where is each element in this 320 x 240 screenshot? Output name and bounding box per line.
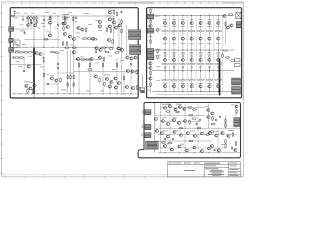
transistor Q41 [125, 85, 128, 88]
label C misc2 [172, 117, 177, 120]
wire gnd rail [12, 93, 138, 95]
diode DB5a [200, 55, 202, 57]
wire vertical net A20 [116, 58, 118, 94]
capacitor C5 [12, 56, 14, 59]
label A misc12 [28, 55, 32, 58]
resistor RE6f [210, 79, 213, 80]
label Q406 value [207, 82, 211, 85]
label Q103 pin [181, 18, 185, 21]
transistor Q325 [187, 132, 190, 135]
resistor RE6a [206, 30, 209, 31]
transistor Q306 (NPN output) [208, 58, 211, 61]
label Q207 value [216, 42, 220, 45]
resistor R302 [175, 111, 180, 113]
transistor Q102 (NPN output) [172, 21, 175, 24]
wire vertical net A14 [70, 50, 72, 94]
capacitor C101 [149, 35, 151, 38]
label C row1b [176, 103, 182, 106]
inductor L1 [235, 59, 241, 67]
transistor Q313 [173, 119, 176, 122]
wire vertical net A22 [130, 59, 132, 94]
transistor Q321 [161, 132, 164, 135]
wire C rail 3 [155, 140, 212, 142]
resistor R110 [225, 22, 227, 27]
wire C vertical 5 [197, 104, 199, 149]
transistor Q18 [35, 51, 38, 54]
label Q103 value [181, 25, 185, 28]
label A misc11 [15, 49, 19, 52]
label Q102 pin [172, 18, 176, 21]
transistor Q107 [149, 66, 152, 69]
wire column 4 vertical [191, 16, 193, 92]
resistor R40 [104, 51, 109, 53]
resistor R325 [211, 123, 216, 125]
wire column 5 emitter vertical [204, 16, 206, 92]
transistor Q10 [98, 20, 101, 23]
resistor R27 [67, 75, 69, 80]
transistor Q14 [108, 25, 111, 28]
transistor Q354 [210, 144, 213, 147]
transistor Q24 [25, 84, 28, 87]
wire column 4 emitter vertical [195, 16, 197, 92]
resistor R316 [225, 144, 227, 149]
resistor R34 [103, 57, 105, 62]
transistor Q307 (NPN output) [217, 58, 220, 61]
transistor Q344 [208, 131, 211, 134]
wire bus upper segment [33, 16, 35, 48]
diode D302 [214, 149, 216, 150]
wire left bias [11, 63, 42, 65]
resistor RE1e [162, 79, 165, 80]
wire output to connector [232, 92, 235, 94]
label A text row [13, 43, 18, 46]
resistor RE5d [201, 63, 204, 64]
label A misc18 [100, 90, 104, 93]
transistor Q205 (PNP output) [199, 37, 202, 40]
resistor R313 [225, 123, 227, 128]
resistor RE7a [215, 30, 218, 31]
label J10 net [156, 14, 161, 17]
transistor Q12 [108, 18, 111, 21]
resistor R326 [235, 141, 237, 146]
label C3 [41, 22, 45, 25]
label Q106 pin [208, 18, 212, 21]
connector J10 on B left border [147, 14, 154, 19]
resistor R63 [72, 47, 77, 49]
ground bus (thick) [33, 48, 35, 94]
resistor RE1d [166, 63, 169, 64]
wire vertical net A26 [121, 18, 123, 95]
wire vertical net A9 [72, 16, 74, 55]
label Q204 value [190, 42, 194, 45]
wire vertical net A17 [89, 60, 91, 94]
connector J15 stack right border [232, 78, 241, 85]
wire B J10 stub [154, 16, 160, 18]
transistor Q55 [117, 47, 120, 50]
connector J16 stack right border [232, 87, 241, 95]
wire B J12 stub [154, 50, 160, 52]
resistor R306 [192, 118, 197, 120]
resistor R310 [168, 142, 173, 144]
resistor R28 [70, 75, 72, 80]
transistor Q29 [98, 56, 101, 59]
wire column 5 vertical [200, 16, 202, 92]
capacitor C21 (electrolytic) [30, 17, 33, 20]
diode DB5b [200, 66, 202, 68]
label rail voltage [15, 12, 20, 15]
transistor Q9 [72, 37, 75, 40]
connector J32 on C left border [144, 133, 151, 138]
transistor Q315 [184, 120, 187, 123]
label Q206 value [207, 42, 211, 45]
wire C link row2 [161, 121, 201, 123]
capacitor C303 [215, 119, 217, 122]
connector J34 stack [234, 122, 240, 126]
transistor Q203 (PNP output) [181, 37, 184, 40]
resistor R23 [19, 57, 24, 59]
label 4x0R22 [61, 89, 67, 92]
transistor Q341 [207, 108, 210, 111]
wire vertical net A13 [67, 50, 69, 94]
wire vertical net A23 [95, 48, 97, 52]
resistor R35 [87, 69, 92, 71]
title block [168, 162, 241, 177]
label Q301 value [163, 53, 167, 56]
pin circle J30 [142, 111, 144, 113]
capacitor C22 (electrolytic) [33, 17, 36, 20]
resistor R58 [116, 63, 118, 68]
transistor Q110 [223, 14, 226, 17]
resistor RE7c [215, 63, 218, 64]
transistor Q53 [95, 47, 98, 50]
label output net [222, 50, 228, 53]
wire vertical net A24 [104, 48, 106, 52]
label C misc5 [190, 130, 195, 133]
resistor RE5b [201, 30, 204, 31]
transistor Q108 [149, 77, 152, 80]
wire B right vertical [225, 19, 227, 45]
resistor R305 [189, 120, 191, 125]
resistor R307 [205, 134, 210, 136]
junction dots column 4 [191, 15, 192, 92]
label J12 net [156, 48, 161, 51]
label A misc1 [26, 20, 30, 23]
wire vertical net A7 [57, 16, 59, 48]
wire vertical net A19 [109, 83, 111, 94]
transistor Q34 [131, 70, 134, 73]
wire C left vertical [154, 103, 156, 153]
wire vertical net A3 [33, 17, 35, 22]
capacitor C8 [95, 51, 97, 54]
connector J31 on C left border [144, 124, 151, 129]
diode DB4b [191, 66, 193, 68]
connector J1 on left border [9, 27, 14, 32]
transistor Q335 [193, 146, 196, 149]
transistor Q407 (PNP output) [217, 85, 220, 88]
transistor Q334 [186, 149, 189, 152]
label Q101 value [163, 25, 167, 28]
resistor R16 [14, 52, 19, 54]
label A misc14 [108, 55, 112, 58]
capacitor C28 [57, 24, 59, 27]
transistor Q355 [217, 149, 220, 152]
label A band8 [55, 27, 59, 30]
wire C bottom rail [158, 152, 240, 154]
capacitor C11 [57, 63, 59, 66]
resistor R62 [64, 47, 69, 49]
transistor Q304 (NPN output) [190, 58, 193, 61]
label Q306 value [207, 53, 211, 56]
diode DB2a [173, 55, 175, 57]
diode D303 [219, 116, 221, 117]
label A misc17 [86, 90, 90, 93]
capacitor C9 [120, 11, 122, 14]
transistor Q348 [234, 148, 237, 151]
label rail stub 3 [181, 51, 184, 54]
transistor Q56 [120, 48, 123, 51]
label Q205 value [198, 42, 202, 45]
junction dots column 7 [218, 15, 219, 92]
transistor Q15 [114, 26, 117, 29]
resistor R32 [80, 59, 85, 61]
label Q307 value [216, 53, 220, 56]
wire C vertical 2 [160, 103, 162, 153]
resistor R44 [121, 29, 123, 34]
capacitor C304 [172, 138, 174, 141]
diode DB6a [208, 55, 210, 57]
wire C link row3 [158, 134, 236, 136]
wire C rail 1 [155, 114, 205, 116]
label A misc13 [60, 49, 64, 52]
transistor Q37 [114, 77, 117, 80]
wire B output rail [152, 91, 236, 93]
wire vertical net A18 [102, 58, 104, 94]
connector J5 stack on right border [129, 35, 141, 40]
transistor Q403 (PNP output) [181, 85, 184, 88]
resistor R41 [114, 52, 119, 54]
label A misc7 [80, 56, 84, 59]
label Q107 value [216, 25, 220, 28]
transistor Q206 (PNP output) [208, 37, 211, 40]
resistor RE4f [192, 79, 195, 80]
resistor R320 [189, 115, 194, 117]
transistor Q406 (PNP output) [208, 85, 211, 88]
resistor R22 [14, 57, 19, 59]
label Q202 value [172, 42, 176, 45]
transistor Q21 [27, 65, 30, 68]
wire mid rail 2 (driver supply) [11, 46, 114, 48]
wire column 6 emitter vertical [213, 16, 215, 92]
label B col2 b [156, 79, 160, 82]
label Q405 value [198, 82, 202, 85]
label A topmid [84, 12, 89, 15]
resistor RE4d [192, 63, 195, 64]
resistor R13 [82, 38, 87, 40]
resistor RE6e [206, 79, 209, 80]
transistor Q404 (PNP output) [190, 85, 193, 88]
resistor RE5f [201, 79, 204, 80]
resistor RE7d [219, 63, 222, 64]
wire column 7 emitter vertical [222, 16, 224, 92]
transistor Q302 [169, 105, 172, 108]
capacitor C3 [43, 19, 45, 22]
label bias net [20, 30, 25, 33]
label Q106 value [207, 25, 211, 28]
wire C vertical 6 [217, 128, 219, 153]
label A misc5 [95, 19, 99, 22]
diode DB6b [208, 66, 210, 68]
diode DB4a [191, 55, 193, 57]
diode D1 [31, 23, 33, 24]
transistor Q305 [183, 108, 186, 111]
resistor RE3f [183, 79, 186, 80]
transistor Q314 [178, 122, 181, 125]
resistor R29 [73, 75, 75, 80]
transistor Q58 [81, 28, 84, 31]
transistor Q342 [211, 112, 214, 115]
diode DB7b [217, 66, 219, 68]
resistor RE5a [197, 30, 200, 31]
wire B rail 2 [152, 49, 234, 51]
label A top right [108, 9, 114, 12]
connector J13 on B left border [147, 55, 154, 60]
resistor R56 [89, 63, 91, 68]
transistor Q36 [110, 80, 113, 83]
transistor Q107 (NPN output) [217, 21, 220, 24]
capacitor C1 [13, 10, 16, 17]
capacitor C7 [42, 60, 44, 63]
label A misc2 [37, 27, 41, 30]
label rail stub 6 [208, 51, 211, 54]
relay K1 (crossed box) [236, 12, 241, 19]
transistor Q350 [235, 105, 238, 108]
resistor R26 [32, 89, 34, 94]
label Q107 pin [217, 18, 221, 21]
resistor R314 [232, 132, 234, 137]
resistor R60 [123, 76, 125, 81]
wire mid horizontal 3 [74, 71, 138, 73]
transistor Q204 (PNP output) [190, 37, 193, 40]
resistor RE3b [183, 30, 186, 31]
label J13 net [156, 54, 161, 57]
label A band7 [42, 25, 46, 28]
diode DB1a [164, 55, 166, 57]
label J20 [147, 89, 150, 92]
label A band6 [20, 24, 24, 27]
resistor R20 [50, 51, 55, 53]
label C misc3 [163, 130, 168, 133]
resistor RE2b [174, 30, 177, 31]
label A band4 [52, 12, 56, 15]
resistor R324 [236, 109, 238, 114]
label A misc9 [50, 74, 54, 77]
connector J7 stack on right border [130, 50, 141, 55]
transistor Q343 [207, 115, 210, 118]
wire B J13 stub [154, 56, 160, 58]
junction dots mid rail [17, 46, 108, 49]
transformer T1 (boxed) [146, 141, 159, 149]
label A mid2 [76, 32, 80, 35]
transistor Q26 [33, 84, 36, 87]
label R50 [66, 16, 71, 19]
capacitor C302 [231, 147, 233, 150]
capacitor C4 [24, 32, 26, 35]
transistor Q28 [90, 57, 93, 60]
resistor RE4b [192, 30, 195, 31]
transistor Q303 [174, 108, 177, 111]
resistor R39 [139, 87, 141, 92]
resistor R24 [60, 78, 62, 83]
resistor R9 [62, 41, 64, 46]
transistor Q16 [91, 37, 94, 40]
label A text row2 [22, 43, 26, 46]
transistor Q101 (NPN output) [164, 21, 167, 24]
resistor R15 [112, 39, 114, 44]
wire B left column [150, 10, 152, 93]
junction dots C bottom [165, 152, 210, 153]
wire +V top rail [14, 15, 114, 17]
label Q3 [47, 19, 52, 22]
resistor R303 [188, 107, 193, 109]
transistor Q3 [49, 21, 52, 24]
wire C r-chain [225, 115, 227, 128]
resistor R309 [161, 142, 166, 144]
transistor Q42 [131, 86, 134, 89]
label C tr1 [231, 104, 235, 107]
label A band2 [31, 12, 35, 15]
transistor Q332 [171, 148, 174, 151]
resistor R25 [27, 89, 29, 94]
connector J2 on left border [9, 38, 14, 42]
capacitor C20 (electrolytic) [27, 17, 30, 20]
resistor R31 [73, 82, 75, 87]
resistor R106 [157, 55, 159, 60]
connector J6 stack on right border [130, 45, 141, 50]
resistor R304 [192, 109, 197, 111]
transistor Q32 [134, 56, 137, 59]
wire C link row4 [161, 147, 226, 149]
label rail stub 4 [190, 51, 193, 54]
label A misc4 [76, 36, 80, 39]
transistor Q402 (PNP output) [172, 85, 175, 88]
wire column 1 vertical [164, 16, 166, 92]
resistor R7 [73, 17, 75, 22]
transistor Q22 [50, 77, 53, 80]
label A misc10 [30, 81, 34, 84]
transistor Q401 (PNP output) [164, 85, 167, 88]
capacitor C25 (electrolytic) [62, 17, 65, 20]
resistor R101 [150, 8, 152, 13]
resistor R38 [136, 85, 138, 90]
label relay net [228, 129, 234, 132]
connector J4 stack on right border [129, 30, 141, 35]
wire vertical net A16 [78, 60, 80, 94]
transistor Q106 (NPN output) [208, 21, 211, 24]
resistor R14 [86, 38, 91, 40]
power bus -V (thick) [219, 59, 221, 96]
resistor R37 [104, 82, 106, 87]
transistor Q19 [39, 52, 42, 55]
resistor R21 [54, 52, 59, 54]
wire vertical net A10 [23, 57, 25, 70]
diode DB2b [173, 66, 175, 68]
resistor RE2a [170, 30, 173, 31]
label A band3 [44, 11, 49, 14]
wire A mid link2 [58, 72, 74, 74]
resistor RE4a [188, 30, 191, 31]
resistor RE5c [197, 63, 200, 64]
capacitor C13 [130, 63, 132, 66]
